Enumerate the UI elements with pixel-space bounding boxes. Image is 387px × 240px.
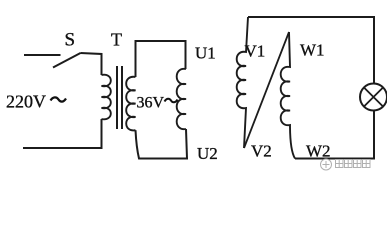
svg-text:S: S (65, 30, 76, 51)
wire 220V top stub (24, 54, 61, 56)
svg-text:220V: 220V (6, 92, 46, 112)
svg-text:T: T (111, 30, 122, 50)
wire right loop: V1 top wire to lamp top (248, 17, 374, 84)
transformer T secondary winding (126, 77, 135, 131)
label 220V tilde (51, 97, 67, 101)
svg-text:V1: V1 (245, 42, 266, 61)
svg-text:V2: V2 (251, 142, 272, 161)
watermark (321, 159, 371, 170)
wire diagonal V2 to W1 (244, 32, 289, 148)
winding W (281, 32, 295, 159)
svg-text:36V: 36V (137, 95, 165, 112)
svg-text:U1: U1 (195, 44, 216, 63)
wire primary bottom to 220V bottom stub (23, 119, 102, 148)
wire switch to transformer primary (81, 53, 102, 75)
label 36V tilde (165, 99, 178, 103)
svg-text:U2: U2 (197, 144, 218, 163)
winding V (237, 17, 248, 148)
svg-text:W2: W2 (306, 142, 331, 161)
transformer T core (117, 66, 122, 129)
svg-text:W1: W1 (300, 41, 325, 60)
lamp (360, 84, 387, 111)
switch S blade (53, 53, 81, 68)
winding U (177, 69, 186, 129)
wire secondary top to winding U top (136, 41, 186, 77)
wire W2 bottom to lamp bottom (295, 111, 374, 159)
wire secondary bottom to winding U bottom (136, 129, 188, 159)
transformer T primary winding (102, 75, 111, 120)
